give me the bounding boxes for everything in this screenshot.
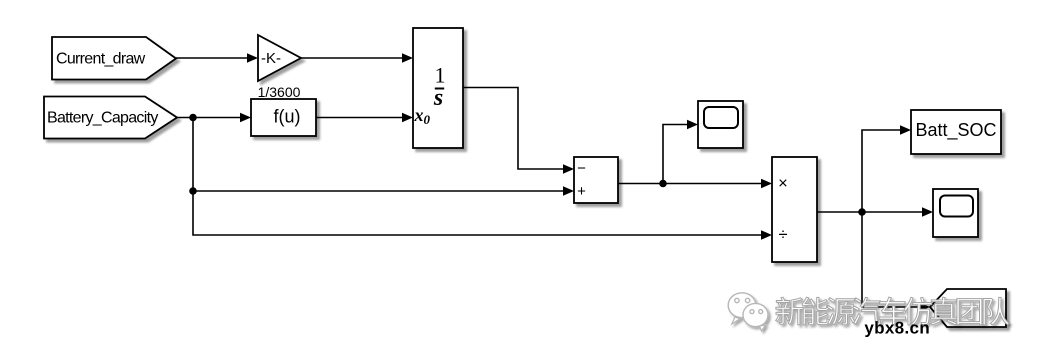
wire Gain to Integrator port 1 — [301, 57, 404, 59]
scope block Scope — [698, 101, 743, 148]
svg-text:f(u): f(u) — [274, 107, 301, 127]
wire Fcn to Integrator x0 port — [316, 117, 404, 119]
inport tag Current_draw — [52, 37, 176, 80]
svg-text:+: + — [577, 183, 586, 200]
wire Integrator to Sum minus input — [463, 88, 565, 170]
sum block — [574, 157, 618, 203]
svg-text:Batt_SOC: Batt_SOC — [915, 120, 996, 141]
watermark char 团 — [957, 299, 982, 325]
eyes left bubble — [735, 298, 739, 302]
gain block -K- — [258, 35, 301, 81]
junction node at Product output — [858, 208, 866, 216]
watermark char 汽 — [853, 297, 881, 325]
junction node on Battery_Capacity output — [189, 114, 197, 122]
wechat right bubble — [743, 303, 768, 326]
watermark wechat logo — [728, 293, 768, 331]
watermark char 真 — [930, 297, 957, 325]
scope block Scope1 — [933, 189, 978, 237]
watermark url ybx8.cn — [865, 321, 929, 337]
wire branch Product output to From tag — [862, 212, 921, 307]
wire Sum to Product times input — [618, 183, 763, 185]
svg-text:Battery_Capacity: Battery_Capacity — [47, 110, 158, 127]
svg-text:Current_draw: Current_draw — [56, 51, 146, 68]
product block — [772, 157, 817, 262]
eyes right bubble — [750, 310, 754, 314]
wire branch Battery_Capacity to Product divide input — [193, 191, 763, 235]
svg-text:s: s — [433, 85, 443, 111]
svg-text:−: − — [577, 160, 586, 177]
wire Battery_Capacity to Fcn — [177, 117, 242, 119]
outport block Batt_SOC — [911, 110, 1001, 154]
junction node at Sum plus branch — [189, 187, 197, 195]
wechat left bubble — [728, 293, 756, 318]
wire Product to Scope1 — [817, 211, 924, 213]
svg-text:1: 1 — [435, 63, 446, 88]
goto tag at bottom right — [930, 289, 1006, 327]
Fcn block f(u) — [251, 99, 316, 136]
watermark char 能 — [802, 297, 829, 325]
wire branch Battery_Capacity to Sum plus input — [193, 118, 565, 192]
svg-text:1/3600: 1/3600 — [258, 84, 301, 100]
watermark char 新 — [776, 297, 804, 325]
watermark char 仿 — [904, 297, 932, 325]
watermark char 队 — [983, 297, 1009, 325]
wire Current_draw to Gain — [176, 57, 248, 59]
svg-text:÷: ÷ — [778, 226, 787, 244]
svg-text:×: × — [778, 175, 788, 193]
inport tag Battery_Capacity — [44, 97, 177, 139]
integrator block 1/s — [413, 28, 463, 148]
wire branch Product output to Batt_SOC — [862, 130, 902, 212]
watermark char 车 — [879, 297, 905, 325]
junction node at Sum output — [659, 180, 667, 188]
watermark char 源 — [827, 298, 855, 325]
wire branch Sum output to Scope — [663, 125, 689, 184]
svg-text:-K-: -K- — [261, 50, 281, 67]
watermark chinese text 新能源汽车仿真团队 — [776, 297, 1010, 325]
